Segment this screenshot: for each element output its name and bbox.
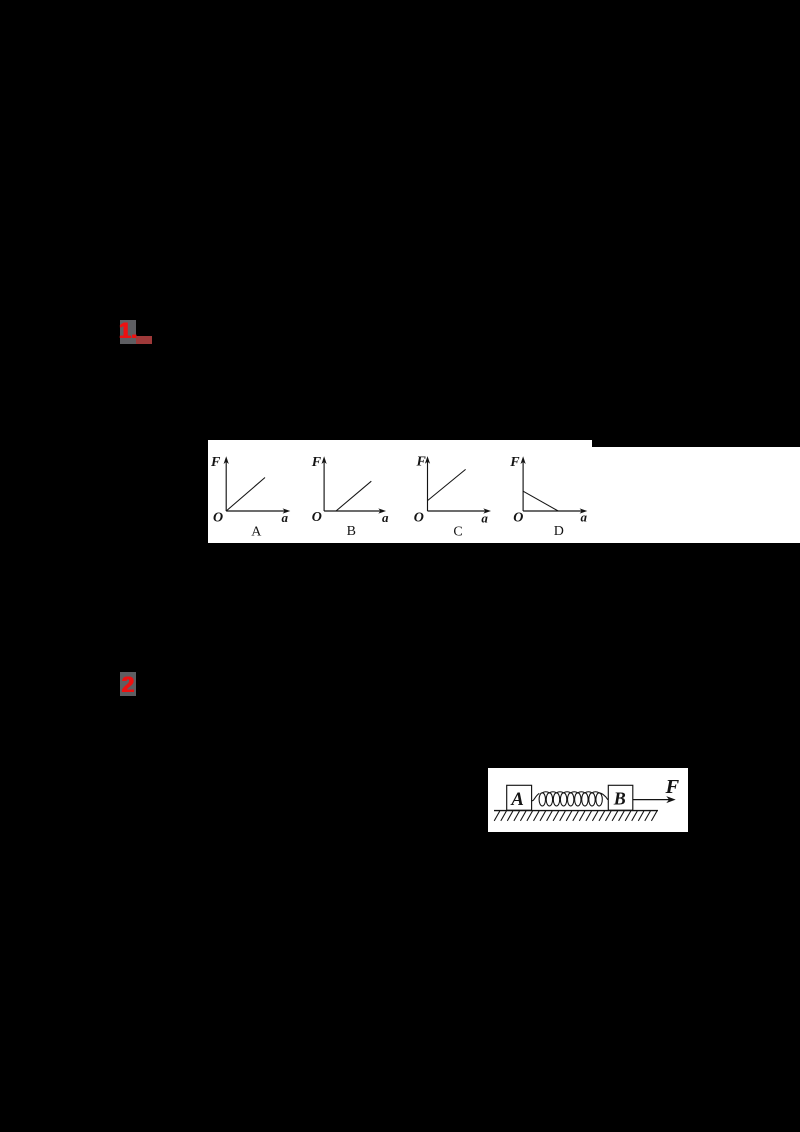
svg-text:F: F [416, 455, 427, 470]
svg-text:O: O [513, 511, 523, 526]
spring left connector [532, 793, 540, 800]
graph A x-axis [226, 510, 285, 512]
question number 1 icon: gray square [120, 320, 136, 344]
svg-text:C: C [453, 525, 462, 540]
graph B line with a-intercept [336, 481, 371, 511]
graph B x-axis [324, 510, 381, 512]
spring right connector [599, 793, 608, 800]
svg-text:a: a [282, 510, 289, 525]
block A box [507, 785, 532, 810]
graph D descending line [523, 491, 558, 511]
svg-text:B: B [347, 524, 356, 539]
graph C x arrowhead [483, 508, 491, 513]
graph C x-axis [428, 510, 486, 512]
spring coils [539, 792, 602, 806]
svg-text:O: O [414, 510, 424, 525]
graph B y-axis [323, 462, 325, 512]
svg-text:F: F [311, 455, 322, 470]
graph B x arrowhead [378, 508, 386, 513]
ground line [494, 810, 658, 812]
svg-text:B: B [613, 789, 626, 809]
graph A proportional line [226, 478, 265, 512]
graph B y arrowhead [322, 456, 327, 464]
svg-text:a: a [481, 510, 488, 525]
graph A y arrowhead [224, 456, 229, 464]
graph C y arrowhead [425, 456, 430, 464]
svg-text:F: F [210, 455, 221, 470]
svg-text:F: F [509, 455, 520, 470]
svg-text:a: a [382, 510, 389, 525]
applied force arrowhead [666, 796, 675, 803]
question number 2 icon: gray square [120, 672, 136, 696]
graph D y arrowhead [521, 456, 526, 464]
svg-text:a: a [581, 509, 588, 524]
graph D y-axis [522, 462, 524, 512]
ground hatching [494, 811, 657, 821]
svg-text:D: D [554, 524, 564, 539]
svg-text:A: A [251, 524, 262, 539]
question number 2 icon: red numeral 2 [120, 674, 136, 698]
graph D x-axis [523, 510, 582, 512]
spring top arcs [542, 792, 599, 793]
question 1 icon: dark red bar [136, 336, 152, 344]
graph D x arrowhead [580, 508, 588, 513]
block B box [608, 785, 633, 810]
graph A y-axis [225, 462, 227, 512]
white panel: spring block diagram [488, 768, 688, 832]
graph A x arrowhead [283, 508, 291, 513]
SVG: four F-a graphs A B C D [208, 440, 800, 543]
question number 1 icon: red numeral 1. [119, 320, 137, 344]
graph C line with F-intercept [428, 469, 466, 500]
svg-text:O: O [312, 510, 322, 525]
applied force arrow line [633, 799, 669, 801]
svg-text:O: O [213, 511, 223, 526]
graph C y-axis [427, 461, 429, 511]
svg-text:A: A [510, 789, 524, 810]
white panel with answer-choice graphs [208, 440, 592, 543]
svg-text:F: F [665, 776, 680, 798]
